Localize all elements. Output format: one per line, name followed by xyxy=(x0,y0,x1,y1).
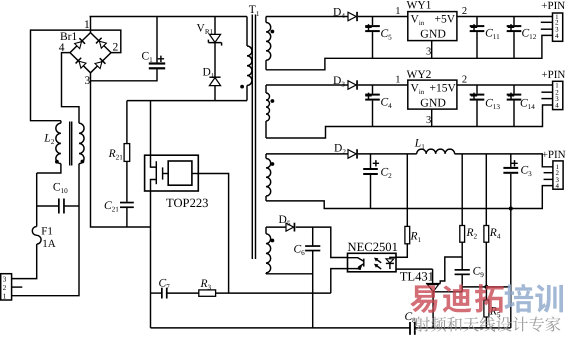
svg-text:1: 1 xyxy=(3,291,7,300)
svg-text:4: 4 xyxy=(59,42,65,54)
svg-text:2: 2 xyxy=(113,41,119,53)
svg-text:GND: GND xyxy=(420,27,446,41)
svg-text:4: 4 xyxy=(556,183,560,190)
svg-text:GND: GND xyxy=(420,95,446,109)
svg-text:TOP223: TOP223 xyxy=(166,196,208,210)
svg-text:4: 4 xyxy=(555,33,559,40)
svg-text:1: 1 xyxy=(395,75,400,86)
svg-text:2: 2 xyxy=(462,6,467,17)
svg-text:3: 3 xyxy=(85,75,91,87)
svg-text:3: 3 xyxy=(426,115,431,126)
svg-text:2: 2 xyxy=(462,75,467,86)
svg-text:TL431: TL431 xyxy=(400,269,434,283)
svg-text:+5V: +5V xyxy=(435,14,456,26)
svg-text:+PIN: +PIN xyxy=(541,0,565,12)
svg-text:+PIN: +PIN xyxy=(541,69,565,81)
svg-text:1: 1 xyxy=(84,19,90,31)
svg-text:WY2: WY2 xyxy=(407,69,432,81)
svg-text:+15V: +15V xyxy=(430,82,457,94)
svg-text:WY1: WY1 xyxy=(407,0,432,12)
svg-text:+PIN: +PIN xyxy=(542,149,566,161)
svg-text:1: 1 xyxy=(555,82,559,89)
svg-text:1A: 1A xyxy=(42,238,56,250)
svg-text:F1: F1 xyxy=(41,226,53,238)
svg-text:3: 3 xyxy=(426,46,431,57)
svg-text:1: 1 xyxy=(395,6,400,17)
svg-text:4: 4 xyxy=(555,102,559,109)
svg-text:NEC2501: NEC2501 xyxy=(348,240,398,254)
